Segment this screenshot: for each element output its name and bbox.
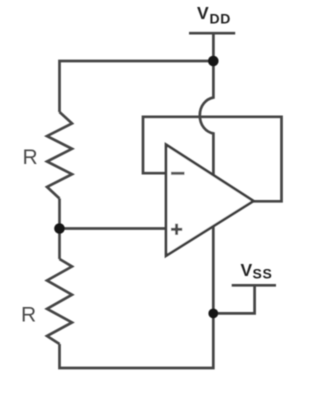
svg-text:SS: SS <box>253 266 273 282</box>
svg-text:R: R <box>21 304 36 327</box>
svg-text:DD: DD <box>210 11 231 27</box>
svg-text:V: V <box>241 260 253 280</box>
svg-text:R: R <box>23 146 38 169</box>
svg-text:V: V <box>197 3 209 23</box>
